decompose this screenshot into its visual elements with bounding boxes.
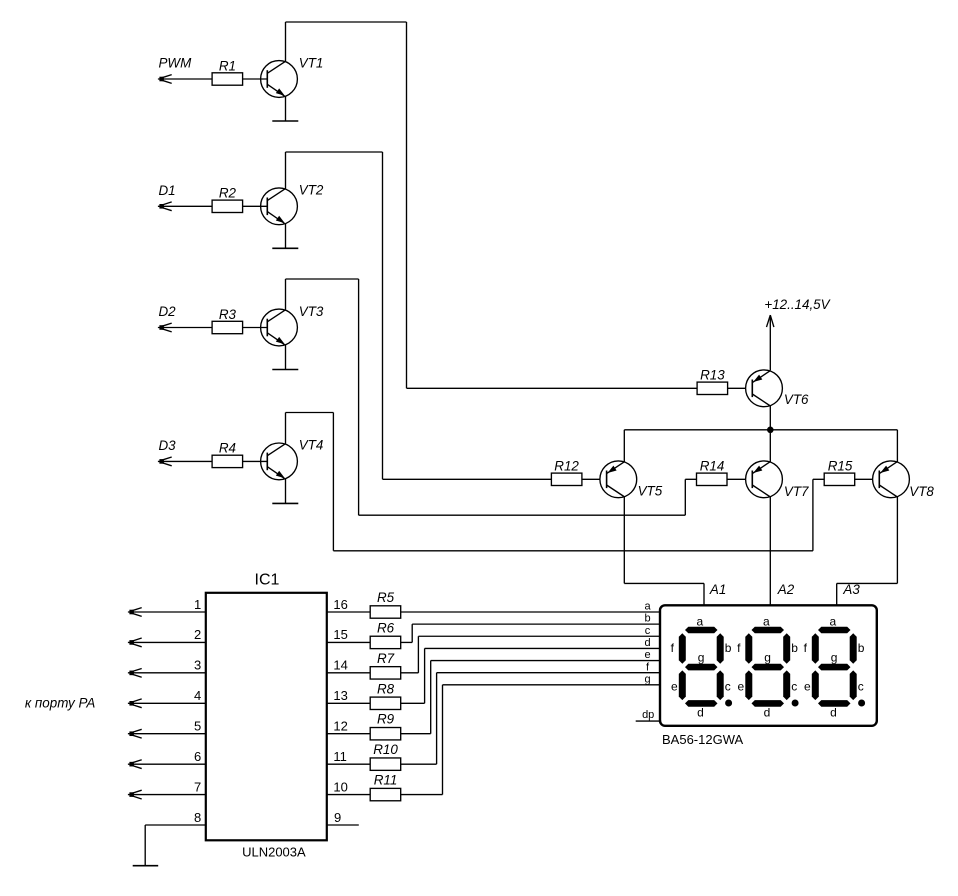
svg-text:a: a xyxy=(763,615,770,629)
svg-text:2: 2 xyxy=(194,627,201,642)
wire pin 5 xyxy=(128,733,206,735)
wire R5 to display a xyxy=(401,611,661,613)
arrow pin 6 xyxy=(132,760,142,763)
svg-text:VT3: VT3 xyxy=(299,304,324,319)
svg-text:7: 7 xyxy=(194,779,201,794)
wire pin 3 xyxy=(128,672,206,674)
wire pin 8 xyxy=(145,824,206,826)
wire D2 to R3 xyxy=(158,327,212,329)
wire R6 up xyxy=(411,624,413,642)
arrow PWM xyxy=(162,75,172,78)
svg-text:3: 3 xyxy=(194,658,201,673)
ground VT1 xyxy=(272,120,298,122)
svg-text:b: b xyxy=(791,641,798,655)
wire dp stub xyxy=(636,720,662,722)
svg-text:VT7: VT7 xyxy=(784,484,809,499)
resistor R2 xyxy=(212,200,243,212)
wire VT4 horizontal xyxy=(333,550,813,552)
wire R15 to VT8 base xyxy=(855,478,873,480)
wire PWM to R1 xyxy=(158,78,212,80)
svg-text:g: g xyxy=(644,673,650,685)
transistor VT8 xyxy=(873,461,910,498)
svg-text:VT2: VT2 xyxy=(299,183,324,198)
wire pin 14 xyxy=(327,672,370,674)
wire VT3 collector up xyxy=(285,279,287,310)
display HG1 body xyxy=(660,605,877,726)
resistor R10 xyxy=(370,758,401,770)
svg-text:R3: R3 xyxy=(219,307,237,322)
wire up to R15 xyxy=(812,479,814,551)
wire A3 into display xyxy=(836,583,838,605)
wire R4 to VT4 base xyxy=(243,460,268,462)
svg-text:R9: R9 xyxy=(377,712,395,727)
wire VT6 collector to node xyxy=(769,406,771,430)
resistor R9 xyxy=(370,728,401,740)
wire R13 to VT6 base xyxy=(728,387,746,389)
svg-text:R6: R6 xyxy=(377,620,395,635)
svg-text:d: d xyxy=(764,705,771,719)
transistor VT6 xyxy=(746,370,783,407)
svg-text:VT6: VT6 xyxy=(784,392,809,407)
wire pin 8 down xyxy=(144,825,146,866)
svg-text:к порту PA: к порту PA xyxy=(25,696,96,711)
wire R6 right xyxy=(401,641,413,643)
wire to display segment xyxy=(443,684,661,686)
svg-text:a: a xyxy=(830,615,837,629)
wire to display segment xyxy=(425,647,661,649)
arrow D3 xyxy=(162,457,172,460)
digit 2 segment letters xyxy=(737,615,798,720)
wire R2 to VT2 base xyxy=(243,205,268,207)
wire pin 9 stub xyxy=(327,824,359,826)
svg-text:D1: D1 xyxy=(159,183,176,198)
wire to display segment xyxy=(412,623,660,625)
wire pin 13 xyxy=(327,702,370,704)
resistor R5 xyxy=(370,606,401,618)
resistor R11 xyxy=(370,788,401,800)
svg-text:D2: D2 xyxy=(159,304,177,319)
digit 1 segment letters xyxy=(671,615,732,720)
arrow pin 7 xyxy=(132,790,142,793)
svg-text:R4: R4 xyxy=(219,441,236,456)
wire pin 4 xyxy=(128,702,206,704)
wire to display segment xyxy=(431,660,661,662)
wire R14 to VT7 base xyxy=(727,478,746,480)
wire VT8 collector down xyxy=(896,497,898,584)
digit 2 segments xyxy=(745,627,798,707)
resistor R1 xyxy=(212,73,243,85)
svg-text:5: 5 xyxy=(194,719,201,734)
wire supply to VT6 emitter xyxy=(769,315,771,370)
wire pin 15 xyxy=(327,641,370,643)
svg-text:e: e xyxy=(644,649,650,661)
svg-text:b: b xyxy=(725,641,732,655)
wire pin 10 xyxy=(327,794,370,796)
wire D3 to R4 xyxy=(158,460,212,462)
svg-text:VT4: VT4 xyxy=(299,438,324,453)
resistor R14 xyxy=(697,473,728,485)
svg-text:D3: D3 xyxy=(159,438,177,453)
arrow pin 5 xyxy=(132,729,142,732)
svg-text:6: 6 xyxy=(194,749,201,764)
wire VT1 collector up xyxy=(285,22,287,61)
svg-text:14: 14 xyxy=(333,658,347,673)
arrow pin 1 xyxy=(132,608,142,611)
svg-text:d: d xyxy=(830,705,837,719)
svg-text:BA56-12GWA: BA56-12GWA xyxy=(662,732,743,747)
wire R10 right xyxy=(401,763,437,765)
svg-text:R7: R7 xyxy=(377,651,395,666)
svg-text:+12..14,5V: +12..14,5V xyxy=(764,297,830,312)
svg-text:A2: A2 xyxy=(777,582,795,597)
ground pin 8 xyxy=(133,865,159,867)
svg-text:VT1: VT1 xyxy=(299,55,324,70)
svg-text:g: g xyxy=(831,651,838,665)
wire VT1 collector right xyxy=(286,21,407,23)
node junction dot xyxy=(767,427,774,434)
arrow pin 2 xyxy=(132,638,142,641)
wire R9 up xyxy=(430,661,432,734)
svg-text:e: e xyxy=(671,679,678,693)
wire R11 right xyxy=(401,794,443,796)
wire VT3 horizontal xyxy=(359,514,686,516)
wire to display segment xyxy=(437,672,661,674)
resistor R7 xyxy=(370,667,401,679)
resistor R13 xyxy=(697,382,728,394)
wire pin 11 xyxy=(327,763,370,765)
digit 3 segments xyxy=(812,627,865,707)
transistor VT3 xyxy=(261,309,298,346)
wire R11 up xyxy=(442,685,444,795)
arrow pin 4 xyxy=(132,699,142,702)
IC U1 body xyxy=(206,593,327,841)
svg-text:b: b xyxy=(644,613,650,625)
wire VT1 emitter xyxy=(285,96,287,121)
wire A1 horizontal xyxy=(624,582,704,584)
svg-text:PWM: PWM xyxy=(159,56,193,71)
wire R12 to VT5 base xyxy=(582,478,600,480)
svg-text:d: d xyxy=(644,637,650,649)
svg-text:R10: R10 xyxy=(373,742,398,757)
svg-text:VT8: VT8 xyxy=(909,484,934,499)
wire D1 to R2 xyxy=(158,205,212,207)
svg-text:8: 8 xyxy=(194,810,201,825)
svg-text:e: e xyxy=(738,679,745,693)
svg-text:c: c xyxy=(725,679,731,693)
wire R9 right xyxy=(401,733,431,735)
supply arrow xyxy=(767,315,771,327)
ground VT4 xyxy=(272,502,298,504)
wire R1 to VT1 base xyxy=(243,78,268,80)
wire rail to VT5 emitter xyxy=(623,430,625,462)
svg-text:4: 4 xyxy=(194,688,201,703)
svg-text:VT5: VT5 xyxy=(638,483,663,498)
svg-text:A1: A1 xyxy=(709,582,726,597)
svg-text:a: a xyxy=(644,601,651,613)
svg-text:9: 9 xyxy=(334,810,341,825)
digit 1 segments xyxy=(679,627,732,707)
wire R7 right xyxy=(401,672,419,674)
svg-text:IC1: IC1 xyxy=(255,572,280,589)
wire R10 up xyxy=(436,673,438,765)
wire rail to VT8 emitter xyxy=(896,430,898,462)
svg-text:10: 10 xyxy=(333,779,347,794)
wire pin 7 xyxy=(128,794,206,796)
svg-text:15: 15 xyxy=(333,627,347,642)
wire pin 12 xyxy=(327,733,370,735)
wire VT3 emitter xyxy=(285,345,287,370)
resistor R15 xyxy=(824,473,855,485)
svg-text:c: c xyxy=(858,679,864,693)
svg-text:11: 11 xyxy=(333,749,347,764)
svg-text:c: c xyxy=(791,679,797,693)
svg-text:R1: R1 xyxy=(219,58,236,73)
svg-text:13: 13 xyxy=(333,688,347,703)
svg-text:R13: R13 xyxy=(700,368,725,383)
resistor R4 xyxy=(212,455,243,467)
wire VT3 collector right xyxy=(286,278,359,280)
svg-text:b: b xyxy=(858,641,865,655)
svg-text:12: 12 xyxy=(333,719,347,734)
wire A1 into display xyxy=(703,583,705,605)
wire pin 6 xyxy=(128,763,206,765)
wire R8 right xyxy=(401,702,425,704)
svg-text:R12: R12 xyxy=(554,459,579,474)
transistor VT2 xyxy=(261,188,298,225)
wire R8 up xyxy=(424,648,426,703)
svg-text:1: 1 xyxy=(194,597,201,612)
resistor R8 xyxy=(370,697,401,709)
wire VT5 collector down xyxy=(623,497,625,584)
wire pin 2 xyxy=(128,641,206,643)
wire into R14 xyxy=(685,478,696,480)
wire A3 horizontal xyxy=(837,582,898,584)
svg-text:R14: R14 xyxy=(700,459,725,474)
wire rail to VT7 emitter xyxy=(769,430,771,462)
wire pin 1 xyxy=(128,611,206,613)
svg-text:R11: R11 xyxy=(374,773,398,788)
wire VT1 collector down xyxy=(406,22,408,388)
svg-text:R2: R2 xyxy=(219,186,237,201)
transistor VT1 xyxy=(261,61,298,98)
wire VT4 collector right xyxy=(286,412,334,414)
ground VT3 xyxy=(272,369,298,371)
wire up to R14 xyxy=(684,479,686,515)
wire to display segment xyxy=(418,635,660,637)
wire VT2 to R12 xyxy=(383,478,552,480)
wire VT4 collector up xyxy=(285,413,287,444)
svg-text:c: c xyxy=(645,625,651,637)
transistor VT5 xyxy=(600,461,637,498)
wire VT7 collector down xyxy=(769,497,771,606)
wire VT2 collector up xyxy=(285,152,287,189)
transistor VT4 xyxy=(261,443,298,480)
svg-text:R8: R8 xyxy=(377,681,395,696)
arrow D2 xyxy=(162,323,172,326)
wire VT3 collector down xyxy=(358,279,360,515)
wire VT2 collector down xyxy=(382,152,384,479)
svg-text:A3: A3 xyxy=(842,582,860,597)
wire VT2 collector right xyxy=(286,151,383,153)
svg-text:e: e xyxy=(804,679,811,693)
svg-text:g: g xyxy=(698,651,705,665)
resistor R12 xyxy=(551,473,582,485)
ground VT2 xyxy=(272,247,298,249)
arrow D1 xyxy=(162,202,172,205)
wire R7 up xyxy=(417,636,419,673)
transistor VT7 xyxy=(746,461,783,498)
arrow pin 3 xyxy=(132,668,142,671)
wire into R15 xyxy=(813,478,824,480)
resistor R6 xyxy=(370,636,401,648)
wire VT4 collector down xyxy=(332,413,334,551)
svg-text:R15: R15 xyxy=(828,459,853,474)
wire to R13 xyxy=(407,387,698,389)
svg-text:16: 16 xyxy=(333,597,347,612)
svg-text:g: g xyxy=(764,651,771,665)
svg-text:d: d xyxy=(697,705,704,719)
resistor R3 xyxy=(212,321,243,333)
svg-text:R5: R5 xyxy=(377,590,395,605)
wire pin 16 xyxy=(327,611,370,613)
wire VT4 emitter xyxy=(285,479,287,504)
svg-text:ULN2003A: ULN2003A xyxy=(242,845,306,860)
wire VT2 emitter xyxy=(285,224,287,249)
wire R3 to VT3 base xyxy=(243,327,268,329)
digit 3 segment letters xyxy=(804,615,865,720)
svg-text:a: a xyxy=(697,615,704,629)
svg-text:dp: dp xyxy=(642,709,654,721)
wire common rail xyxy=(624,429,897,431)
